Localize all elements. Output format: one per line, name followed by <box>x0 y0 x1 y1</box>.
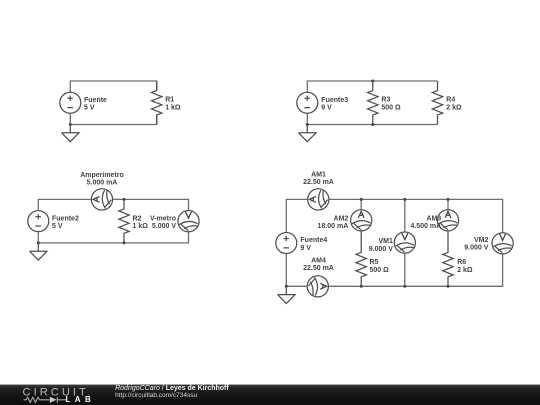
label R6 value <box>457 259 473 274</box>
label Amperimetro value <box>80 172 124 187</box>
resistor R3 <box>368 81 378 125</box>
junction C4 bottom R5 <box>360 285 363 288</box>
label Fuente2 value <box>52 215 79 230</box>
label AM4 value <box>303 258 334 273</box>
wire bottom C4 <box>286 254 502 287</box>
svg-text:http://circuitlab.com/c734ssu: http://circuitlab.com/c734ssu <box>115 392 197 399</box>
label R5 value <box>370 259 390 274</box>
svg-text:LAB: LAB <box>66 395 96 404</box>
svg-text:R4: R4 <box>446 97 455 104</box>
svg-text:9.000 V: 9.000 V <box>369 246 393 253</box>
label AM1 value <box>303 172 334 187</box>
label VM2 value <box>464 237 488 252</box>
ammeter AM2 <box>351 210 372 231</box>
voltage source Fuente <box>60 92 81 113</box>
svg-text:Amperimetro: Amperimetro <box>80 172 124 179</box>
resistor R6 <box>443 231 453 286</box>
voltage source Fuente4 <box>276 233 297 254</box>
label R4 value <box>446 97 462 112</box>
label AM3 value <box>410 215 441 230</box>
svg-text:AM1: AM1 <box>311 172 326 179</box>
svg-text:2 kΩ: 2 kΩ <box>446 104 462 111</box>
junction C4 bottom R6 <box>447 285 450 288</box>
ground C3 <box>30 243 47 260</box>
label Fuente value <box>84 97 107 112</box>
svg-text:500 Ω: 500 Ω <box>381 104 401 111</box>
junction C3 bottom R2 <box>123 241 126 244</box>
resistor R5 <box>356 231 366 286</box>
svg-text:V-metro: V-metro <box>150 215 176 222</box>
junction C4 bottom VM1 <box>403 285 406 288</box>
svg-text:4.500 mA: 4.500 mA <box>410 223 441 230</box>
junction C1 ground node <box>69 123 72 126</box>
voltage source Fuente2 <box>28 211 49 232</box>
svg-text:R3: R3 <box>381 97 390 104</box>
junction C3 top R2 <box>123 198 126 201</box>
ammeter AM3 <box>437 210 458 231</box>
svg-text:5.000 V: 5.000 V <box>152 223 176 230</box>
junction C2 ground node <box>306 123 309 126</box>
label R1 value <box>165 97 181 112</box>
junction C4 bottom ground <box>285 285 288 288</box>
wire top C1 <box>70 81 156 92</box>
svg-text:22.50 mA: 22.50 mA <box>303 179 334 186</box>
wire branch AM3 top <box>447 199 449 209</box>
svg-text:Fuente2: Fuente2 <box>52 215 79 222</box>
logo resistor zigzag <box>24 397 67 403</box>
svg-text:R2: R2 <box>133 215 142 222</box>
svg-text:22.50 mA: 22.50 mA <box>303 265 334 272</box>
svg-text:2 kΩ: 2 kΩ <box>457 267 473 274</box>
svg-text:9.000 V: 9.000 V <box>464 245 488 252</box>
label Fuente3 value <box>321 97 348 112</box>
logo diode <box>50 397 57 403</box>
label R2 value <box>133 215 149 230</box>
voltmeter VM2 <box>492 233 513 254</box>
svg-text:5.000 mA: 5.000 mA <box>87 180 118 187</box>
label VM1 value <box>369 238 393 253</box>
svg-text:9 V: 9 V <box>300 245 311 252</box>
ground C1 <box>62 125 79 142</box>
svg-text:VM1: VM1 <box>378 238 393 245</box>
svg-text:18.00 mA: 18.00 mA <box>318 223 349 230</box>
svg-text:5 V: 5 V <box>84 105 95 112</box>
junction C4 top AM3 <box>447 198 450 201</box>
voltmeter V-metro <box>178 211 199 232</box>
wire top C2 <box>307 81 437 92</box>
svg-text:500 Ω: 500 Ω <box>370 267 390 274</box>
wire bottom C3 <box>38 232 188 243</box>
svg-text:Fuente3: Fuente3 <box>321 97 348 104</box>
wire branch AM2 top <box>360 199 362 209</box>
svg-text:Fuente4: Fuente4 <box>300 237 327 244</box>
label AM2 value <box>318 215 349 230</box>
svg-text:R1: R1 <box>165 97 174 104</box>
svg-text:R5: R5 <box>370 259 379 266</box>
svg-text:VM2: VM2 <box>474 237 489 244</box>
ground C4 <box>278 286 295 303</box>
voltmeter VM1 <box>394 232 415 253</box>
wire bottom C2 <box>307 113 437 124</box>
junction C4 top VM1 <box>403 198 406 201</box>
svg-text:AM2: AM2 <box>334 215 349 222</box>
junction C4 top AM2 <box>360 198 363 201</box>
junction C3 ground node <box>37 241 40 244</box>
svg-text:RodrigoCCaro / Leyes de Kirchh: RodrigoCCaro / Leyes de Kirchhoff <box>115 385 229 392</box>
resistor R2 <box>119 199 129 243</box>
wire top C3 <box>38 199 188 210</box>
wire bottom C1 <box>70 113 156 124</box>
ammeter AM4 <box>307 276 328 297</box>
svg-text:5 V: 5 V <box>52 223 63 230</box>
ammeter Amperimetro <box>91 189 112 210</box>
svg-text:1 kΩ: 1 kΩ <box>133 223 149 230</box>
voltage source Fuente3 <box>297 92 318 113</box>
resistor R4 <box>432 81 442 125</box>
resistor R1 <box>152 81 162 125</box>
svg-text:1 kΩ: 1 kΩ <box>165 104 181 111</box>
svg-text:AM4: AM4 <box>311 258 326 265</box>
label R3 value <box>381 97 401 112</box>
svg-text:R6: R6 <box>457 259 466 266</box>
wire branch VM1 <box>404 199 406 286</box>
label V-metro value <box>150 215 176 230</box>
svg-text:AM3: AM3 <box>426 215 441 222</box>
junction C2 top R3 <box>371 80 374 83</box>
wire top C4 <box>286 199 502 232</box>
ammeter AM1 <box>308 189 329 210</box>
svg-text:9 V: 9 V <box>321 105 332 112</box>
ground C2 <box>299 125 316 142</box>
svg-text:Fuente: Fuente <box>84 97 107 104</box>
junction C2 bottom R3 <box>371 123 374 126</box>
label Fuente4 value <box>300 237 327 252</box>
